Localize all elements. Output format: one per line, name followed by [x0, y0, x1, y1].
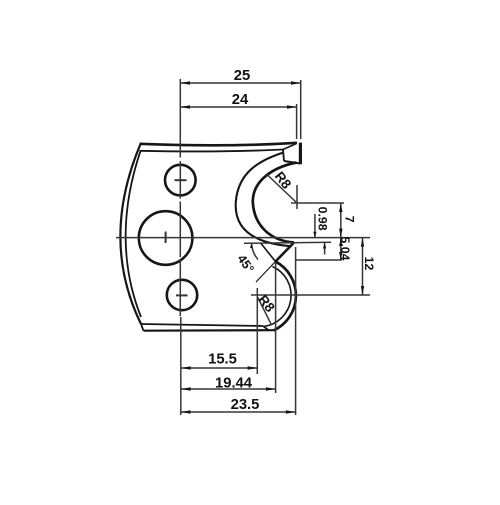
hole bottom small circle — [167, 280, 197, 310]
upper notch outer (bevel) arc — [236, 153, 291, 247]
tip bevel upper facet — [283, 144, 297, 150]
chamfer extension line for 45 dim — [256, 262, 276, 283]
leader R8 lower — [258, 298, 272, 326]
dim line 24 — [180, 106, 296, 108]
svg-text:45°: 45° — [234, 252, 256, 276]
svg-text:5.04: 5.04 — [338, 237, 352, 261]
arrows dim 15.5 — [181, 366, 191, 369]
arrows dim 25 — [180, 81, 190, 84]
top edge main line — [140, 143, 298, 146]
dim line 5.04 — [340, 238, 342, 260]
lower arc center horizontal ref E — [251, 294, 370, 296]
chamfer 45 main edge — [276, 243, 295, 262]
arrow 45 angle — [250, 244, 253, 248]
top edge bevel line — [140, 150, 284, 152]
arrowheads — [180, 81, 364, 413]
tip right vertical edge — [299, 143, 302, 165]
horizontal centerline y=237.5 — [116, 237, 370, 239]
notch point level ref (0.98 lower ref) — [244, 242, 331, 243]
dimension texts — [208, 68, 376, 413]
vertical centerline through holes / top dims reference — [179, 79, 181, 316]
svg-text:R8: R8 — [272, 169, 295, 192]
arrows dim 24 — [180, 105, 190, 108]
tip bevel bottom edge — [284, 161, 300, 164]
ext line 23.5 (x=295.5) — [295, 247, 297, 415]
ext line 25 (x=300.7) — [300, 80, 302, 139]
arrows dim 7 — [339, 203, 342, 212]
hole large circle — [139, 211, 193, 265]
dim line 0.98 — [315, 214, 325, 255]
45 angle arc — [252, 244, 259, 260]
bottom dims left extension line — [180, 317, 182, 415]
dim line 12 — [362, 238, 364, 295]
svg-text:12: 12 — [362, 257, 376, 271]
thin lines: centerlines, extension lines, dimension lines — [116, 79, 370, 415]
arrows dim 23.5 — [181, 410, 191, 413]
svg-text:25: 25 — [234, 68, 250, 84]
ext line 24 (x=296.6) — [296, 104, 298, 139]
V bottom level ref D — [296, 259, 342, 261]
lower bulge outer profile arc R8 — [274, 262, 296, 331]
dim line 25 — [180, 82, 300, 84]
leader R8 upper — [267, 175, 297, 204]
lower bulge inner bevel arc — [264, 267, 292, 327]
upper notch inner profile arc R8 — [253, 163, 297, 243]
ext line 19.44 (x=275.5) — [275, 263, 277, 393]
dim line 23.5 — [181, 411, 296, 413]
dim line 7 — [340, 203, 342, 238]
svg-text:7: 7 — [342, 216, 356, 223]
arrows dim 12 — [361, 238, 364, 247]
svg-text:0.98: 0.98 — [315, 207, 329, 231]
bottom circle crossbar — [176, 294, 188, 296]
arrows dim 0.98 outside — [313, 232, 316, 238]
dim line 15.5 — [181, 367, 257, 369]
upper arc center horizontal ref A — [291, 202, 344, 204]
chamfer bevel back edge — [261, 244, 276, 262]
arrows dim 5.04 — [339, 238, 342, 246]
arrows dim 19.44 — [181, 387, 191, 390]
left edge outer arc — [120, 144, 141, 324]
top circle crossbar — [175, 179, 187, 181]
lower arc center cross vertical / 15.5 ext — [256, 288, 258, 374]
svg-text:23.5: 23.5 — [231, 397, 260, 413]
profile knife body outline — [120, 143, 300, 331]
svg-text:24: 24 — [232, 92, 249, 108]
bottom edge right step — [263, 326, 268, 330]
bottom edge lower line — [144, 329, 274, 332]
bottom edge left cap — [141, 324, 144, 331]
hole top small circle — [165, 165, 196, 196]
dim line 19.44 — [181, 388, 276, 390]
svg-text:19.44: 19.44 — [215, 376, 253, 392]
left edge inner arc — [126, 151, 141, 317]
svg-text:15.5: 15.5 — [208, 352, 237, 368]
upper arc center cross vertical — [296, 185, 298, 209]
bottom edge upper line — [141, 324, 263, 326]
tip bevel left edge — [283, 150, 284, 162]
large circle vertical tick — [165, 232, 167, 244]
